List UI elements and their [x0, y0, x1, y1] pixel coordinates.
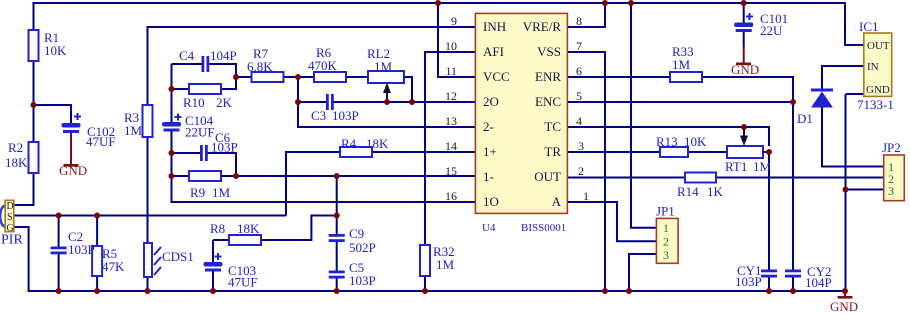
svg-text:18K: 18K: [366, 136, 389, 151]
IC1 pin names: [866, 40, 890, 96]
resistor R6: [314, 72, 346, 82]
svg-text:D: D: [7, 201, 14, 212]
wire C4 row: [172, 64, 237, 77]
PIR pin letters: [7, 201, 14, 234]
svg-text:1M: 1M: [753, 159, 772, 174]
svg-text:JP2: JP2: [882, 140, 901, 155]
svg-text:47UF: 47UF: [86, 134, 116, 149]
svg-text:VRE/R: VRE/R: [523, 19, 562, 34]
svg-text:TR: TR: [544, 144, 561, 159]
svg-text:18K: 18K: [5, 155, 28, 170]
capacitor C3: [326, 94, 334, 110]
resistor R14: [685, 173, 716, 183]
resistor R4: [340, 147, 372, 157]
resistor R33: [670, 72, 702, 82]
svg-text:R2: R2: [8, 140, 23, 155]
svg-text:1M: 1M: [436, 257, 455, 272]
svg-text:13: 13: [445, 114, 457, 128]
svg-text:104P: 104P: [210, 48, 237, 63]
capacitor C104: [162, 114, 182, 132]
labels right column: [482, 11, 901, 290]
capacitor C6: [200, 145, 208, 161]
svg-text:16: 16: [445, 189, 457, 203]
wire GND bottom rail: [14, 227, 845, 291]
svg-text:INH: INH: [483, 19, 506, 34]
svg-text:U4: U4: [482, 222, 496, 234]
JP2 pin numbers: [888, 160, 894, 198]
svg-text:1K: 1K: [707, 184, 724, 199]
svg-text:D1: D1: [797, 111, 813, 126]
wire C101 to ground: [743, 32, 745, 63]
wire JP1 pin3 ground column: [629, 254, 656, 291]
capacitor C4: [202, 56, 210, 72]
resistor R32: [420, 245, 430, 276]
svg-text:9: 9: [451, 14, 457, 28]
wire R10 row: [172, 77, 237, 89]
wire pin5 ENC row: [568, 101, 794, 103]
svg-text:1O: 1O: [483, 194, 499, 209]
svg-text:R8: R8: [210, 221, 225, 236]
svg-text:C4: C4: [179, 48, 195, 63]
svg-text:103P: 103P: [349, 273, 376, 288]
svg-text:ENC: ENC: [535, 94, 561, 109]
photoresistor CDS1: [144, 243, 161, 277]
JP1 pin numbers: [663, 221, 669, 262]
capacitor C9: [329, 234, 345, 242]
wire VCC top rail: [34, 3, 864, 61]
svg-text:1M: 1M: [672, 57, 691, 72]
capacitor C2: [51, 247, 67, 255]
wire IC1 IN to D1: [822, 66, 864, 90]
capacitor CY1: [761, 270, 777, 278]
svg-text:OUT: OUT: [534, 169, 561, 184]
wire RT1 wiper stem: [743, 127, 745, 143]
wire CY2 column: [792, 102, 794, 291]
capacitor C102: [62, 113, 82, 133]
svg-text:3: 3: [888, 184, 894, 198]
svg-text:1M: 1M: [212, 185, 231, 200]
wire R4 row pin14: [286, 152, 475, 216]
wire RL2 wiper stem: [386, 90, 388, 102]
potentiometer RL2: [368, 71, 404, 102]
resistor R3: [143, 105, 153, 137]
svg-text:1M: 1M: [124, 123, 143, 138]
wire R9 row pin15: [172, 175, 476, 177]
svg-text:RT1: RT1: [725, 159, 747, 174]
wire pin7 VSS to ground: [568, 52, 606, 291]
wire R32 column pin10 AFI: [425, 52, 475, 291]
svg-text:18K: 18K: [237, 221, 260, 236]
resistor R2: [29, 142, 39, 173]
svg-text:3: 3: [578, 139, 584, 153]
svg-text:GND: GND: [830, 299, 858, 314]
svg-text:1+: 1+: [483, 144, 497, 159]
resistor R8: [229, 235, 261, 245]
capacitor C103: [204, 253, 223, 272]
wire PIR S row: [14, 215, 286, 217]
wire C104 column: [172, 64, 476, 202]
potentiometer RT1: [727, 127, 763, 158]
svg-text:103P: 103P: [332, 108, 359, 123]
svg-text:A: A: [552, 194, 562, 209]
svg-text:GND: GND: [59, 163, 87, 178]
wire D1 to JP2 pin1: [822, 108, 884, 167]
svg-text:GND: GND: [866, 84, 890, 96]
wire JP1 pin1 VCC column: [631, 3, 656, 228]
node VCC drop to pin11: [438, 3, 475, 77]
svg-text:502P: 502P: [349, 240, 376, 255]
svg-text:C3: C3: [311, 108, 326, 123]
diode D1: [811, 89, 833, 108]
wire R5 column: [96, 216, 98, 292]
op-amp IC U4 BISS0001 body: [475, 13, 567, 213]
svg-text:VCC: VCC: [483, 69, 510, 84]
svg-text:R14: R14: [677, 184, 699, 199]
svg-text:VSS: VSS: [537, 44, 561, 59]
wire pin6 ENR to R33: [568, 76, 671, 78]
wire pin1 A to JP1 pin2: [568, 202, 657, 241]
wire C3 row pin12 2O: [298, 77, 475, 127]
svg-text:3: 3: [663, 248, 669, 262]
resistor R5: [92, 246, 102, 276]
svg-text:1-: 1-: [483, 169, 494, 184]
wire C102 to ground: [70, 133, 72, 164]
svg-text:5: 5: [576, 89, 582, 103]
svg-text:C9: C9: [349, 226, 364, 241]
connector JP1 body: [656, 218, 678, 263]
svg-text:IN: IN: [867, 61, 879, 73]
ground symbol under C101: [731, 62, 759, 77]
wire R7 R6 RL2 row pin11: [236, 77, 412, 102]
svg-text:4: 4: [576, 114, 582, 128]
capacitor C5: [329, 271, 345, 279]
svg-text:47K: 47K: [102, 259, 125, 274]
svg-text:OUT: OUT: [867, 40, 890, 52]
svg-text:10K: 10K: [44, 43, 67, 58]
svg-text:TC: TC: [544, 119, 561, 134]
svg-text:8: 8: [576, 14, 582, 28]
IC U4 pin numbers: [445, 14, 589, 203]
svg-text:G: G: [7, 223, 14, 234]
svg-text:AFI: AFI: [483, 44, 504, 59]
resistor R1: [29, 30, 39, 61]
wire pin4 TC row: [568, 127, 770, 146]
ground symbol bottom right: [830, 291, 858, 314]
svg-text:103P: 103P: [68, 242, 95, 257]
sensor connector PIR body: [0, 200, 14, 231]
IC U4 pin names: [483, 19, 562, 209]
svg-text:GND: GND: [731, 62, 759, 77]
svg-text:2-: 2-: [483, 119, 494, 134]
wire CY1 column: [768, 152, 770, 291]
labels left column: [1, 30, 455, 290]
svg-text:1: 1: [583, 189, 589, 203]
wire IC1 GND column to JP2 pin3 and ground: [846, 94, 884, 291]
wire pin2 OUT row to JP2 pin2: [568, 177, 884, 179]
svg-text:6.8K: 6.8K: [247, 59, 273, 74]
resistor R7: [252, 72, 284, 82]
svg-text:1M: 1M: [374, 59, 393, 74]
svg-text:2O: 2O: [483, 94, 499, 109]
svg-text:IC1: IC1: [859, 19, 879, 34]
svg-text:2: 2: [663, 235, 669, 249]
svg-text:7: 7: [576, 39, 582, 53]
svg-text:15: 15: [445, 164, 457, 178]
svg-text:14: 14: [445, 139, 457, 153]
svg-text:JP1: JP1: [656, 204, 675, 219]
svg-text:103P: 103P: [211, 140, 238, 155]
wire C102 top lead: [34, 105, 72, 123]
capacitor CY2: [785, 270, 801, 278]
svg-text:S: S: [7, 212, 13, 223]
svg-text:104P: 104P: [805, 275, 832, 290]
wire C2 column: [58, 216, 60, 292]
svg-text:12: 12: [445, 89, 457, 103]
wire R3 CDS1 column pin9 INH row: [148, 27, 476, 291]
svg-text:7133-1: 7133-1: [857, 97, 894, 112]
svg-text:6: 6: [576, 64, 582, 78]
wire pin8 VRE/R to VCC: [568, 3, 606, 27]
svg-text:11: 11: [445, 64, 457, 78]
ground symbol under C102: [59, 163, 87, 178]
resistor R13: [660, 147, 688, 157]
svg-text:R13: R13: [656, 134, 678, 149]
wire R2 bottom to PIR D: [14, 173, 34, 205]
svg-text:10K: 10K: [684, 134, 707, 149]
svg-text:CDS1: CDS1: [162, 249, 194, 264]
wire C6 row: [172, 153, 237, 176]
svg-text:22U: 22U: [760, 23, 783, 38]
svg-text:ENR: ENR: [535, 69, 561, 84]
svg-text:2K: 2K: [216, 95, 233, 110]
wire R8 row: [213, 216, 337, 241]
resistor R9: [189, 171, 221, 181]
svg-text:PIR: PIR: [1, 233, 23, 248]
wire R1 top-bottom leads: [33, 61, 35, 143]
svg-text:R10: R10: [183, 95, 205, 110]
svg-text:2: 2: [578, 164, 584, 178]
svg-text:103P: 103P: [735, 274, 762, 289]
wire C103 column: [212, 240, 214, 291]
resistor R10: [189, 84, 221, 94]
regulator IC1 7133-1 body: [864, 33, 892, 96]
svg-text:470K: 470K: [308, 58, 338, 73]
svg-text:47UF: 47UF: [228, 275, 258, 290]
svg-text:22UF: 22UF: [185, 125, 215, 140]
connector JP2 body: [884, 155, 905, 201]
svg-text:1: 1: [663, 221, 669, 235]
svg-text:R4: R4: [341, 136, 357, 151]
wire C9 C5 column: [336, 176, 338, 291]
wire R33 right to ENC junction: [702, 77, 793, 102]
capacitor C101: [734, 13, 753, 32]
svg-text:10: 10: [445, 39, 457, 53]
wire pin3 TR row R13 RT1: [568, 151, 770, 153]
svg-text:BISS0001: BISS0001: [521, 222, 566, 234]
wire C101 top lead: [743, 3, 745, 23]
svg-text:R9: R9: [190, 185, 205, 200]
